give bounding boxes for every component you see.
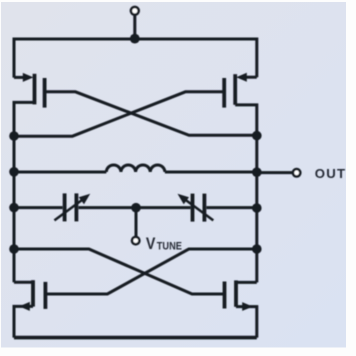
svg-text:OUT: OUT <box>315 166 346 181</box>
svg-text:V: V <box>146 235 156 253</box>
svg-text:TUNE: TUNE <box>157 241 182 253</box>
